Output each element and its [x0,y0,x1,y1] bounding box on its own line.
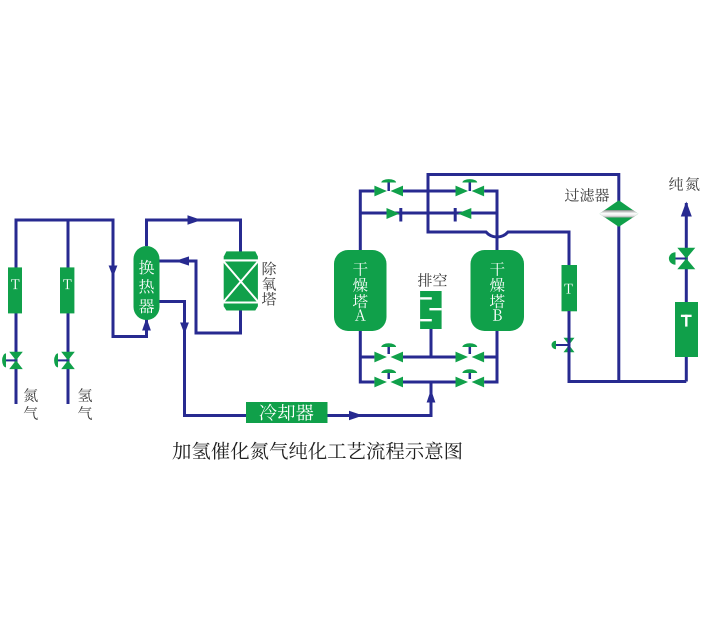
valve V1 on nitrogen line [5,359,16,361]
wire bottom bus [568,380,687,383]
cooler box [246,402,328,423]
arrow right on exchanger-deox line [188,215,202,224]
arrow right after cooler [349,411,363,420]
arrow up into bottom manifold [427,390,436,403]
check valve CV1 row2 left [387,208,400,219]
valve V5 row3 left [374,352,403,363]
wire tower A bottom drop [359,331,362,384]
label dryer tower A [353,262,367,276]
valve V6 row3 right [456,352,485,363]
wire product riser [685,203,688,382]
wire exchanger outlet down to cooler [160,302,247,416]
valve V8 row4 right [456,377,485,388]
inline purifier T1 on nitrogen line [8,267,22,313]
inline purifier T2 on hydrogen line [60,267,74,313]
valve V9 below T3 [554,344,569,346]
label nitrogen inlet [24,388,38,402]
wire exchanger top to deox tower [147,220,241,253]
label deox tower [263,262,276,276]
valve V3 row1 left [374,186,403,197]
valve V10 product line [671,258,686,260]
label vent [418,273,432,287]
label cooler [260,404,277,421]
wire bottom manifold row 4 [360,381,497,384]
wire bottom manifold row 3 [360,356,497,359]
valve V4 row1 right [456,186,485,197]
deox tower body with X packing [224,262,258,302]
valve V7 row4 left [374,377,403,388]
arrow up into exchanger bottom [142,318,151,331]
wire tower B bottom drop [496,331,499,384]
wire top-left header [15,219,114,222]
wire deox return to exchanger [160,261,241,333]
dryer tower B vessel [471,250,525,331]
wire top bus to filter [428,175,619,382]
wire nitrogen feed riser [15,220,18,404]
label dryer tower B [490,262,504,276]
inline purifier T4 [675,302,698,357]
label pure nitrogen [669,177,683,190]
dryer tower A vessel [334,250,387,331]
wire tower A top riser [359,190,362,251]
wire top manifold row 2 [360,212,497,215]
vent silencer symbol [420,291,442,329]
arrow up product [681,202,692,217]
valve V2 on hydrogen line [57,359,68,361]
title caption [173,442,191,460]
wire vent silencer to row3 [430,329,433,357]
wire cooler to dryer manifold [328,382,432,416]
filter diamond [599,200,638,227]
wire hydrogen feed riser [67,220,70,404]
wire top manifold row 1 [360,190,497,193]
deox tower top cap [224,251,258,259]
wire tower B top riser [496,190,499,251]
check valve CV2 row2 right [458,208,472,219]
label hydrogen inlet [78,388,92,402]
inline purifier T3 [562,265,578,311]
arrow down on header leg [109,266,118,278]
arrow down to cooler [180,323,189,335]
wire T3 branch down to bottom bus [568,311,571,382]
label heat exchanger [139,260,154,275]
deox tower bottom cap [224,304,258,311]
wire crossover with hop to T3 [428,232,569,267]
label filter [565,188,579,202]
wire header down-leg to exchanger [113,219,147,337]
arrow left into exchanger side [175,256,189,265]
heat exchanger vessel [134,246,160,320]
